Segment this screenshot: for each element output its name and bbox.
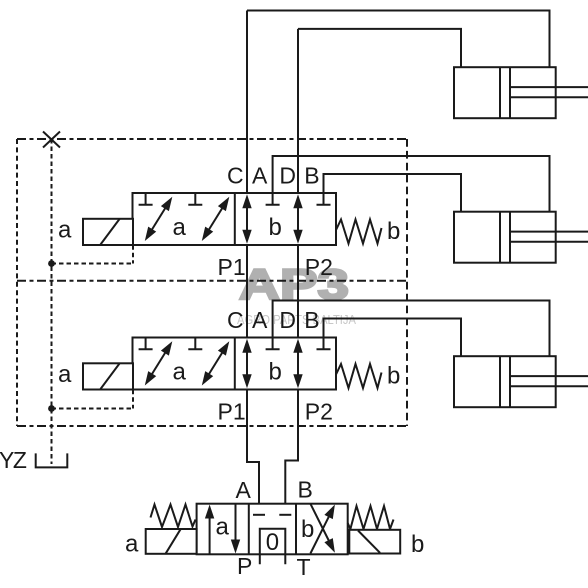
wire B: valve port B over to cylinder left port	[324, 174, 462, 212]
watermark AP3 logo	[237, 261, 356, 327]
svg-text:P: P	[237, 553, 252, 579]
svg-text:b: b	[387, 218, 400, 245]
wire P2/D: vertical line x=298 from top through valves V1,V2 with jog into valve V3 port B	[285, 29, 298, 515]
svg-text:B: B	[304, 163, 319, 189]
valve V3 left spring	[151, 505, 196, 528]
pilot branch to valve V2 solenoid	[52, 390, 134, 409]
diagonal flow arrow 2 in box a	[204, 201, 227, 238]
valve V3 center box 0 with P,T stubs	[260, 529, 286, 564]
svg-text:P2: P2	[305, 254, 333, 280]
cylinder piston	[500, 212, 510, 263]
dashed enclosure top line	[17, 138, 407, 140]
dashed enclosure middle line	[17, 280, 407, 282]
drain port U symbol	[36, 453, 68, 467]
valve unit 2: 6/2 valve V2 with wires and cylinder CYL3	[58, 301, 588, 425]
wire P1/C: vertical line x=247 from top through valves V1,V2 with jog into valve V3 port A	[247, 11, 259, 515]
svg-text:B: B	[298, 477, 313, 503]
junction dot 1	[48, 260, 55, 267]
diagonal flow arrow 1 in box a	[147, 201, 170, 238]
valve unit 1: 6/2 valve V1 with wires and cylinder CYL2	[58, 156, 588, 280]
pilot branch to valve V1 solenoid	[52, 245, 134, 263]
svg-text:a: a	[173, 214, 187, 241]
svg-text:P1: P1	[218, 254, 246, 280]
svg-text:A: A	[252, 163, 268, 189]
blocked port A in box b	[266, 193, 280, 205]
svg-text:a: a	[216, 514, 230, 541]
svg-text:b: b	[411, 531, 424, 558]
valve position divider	[234, 193, 236, 245]
dashed enclosure left line	[16, 139, 18, 426]
junction dot 2	[48, 405, 55, 412]
svg-text:a: a	[58, 217, 72, 244]
valve V3 box a: up arrow	[209, 516, 211, 554]
cylinder CYL1	[454, 67, 588, 118]
cylinder rod	[510, 232, 588, 242]
valve V3 blocked port B	[279, 514, 291, 516]
dashed enclosure bottom line	[17, 425, 407, 427]
svg-text:D: D	[279, 163, 296, 189]
svg-text:C: C	[227, 163, 244, 189]
vertical flow arrow D-P2 in box b	[297, 206, 299, 240]
svg-text:b: b	[301, 516, 314, 543]
valve V3: 4/3 directional valve main box	[197, 504, 348, 555]
svg-text:A: A	[236, 477, 252, 503]
pilot line vertical (dashed)	[51, 139, 53, 464]
wire A: valve port A over to cylinder right port	[273, 156, 550, 212]
valve V3 blocked port A	[253, 514, 265, 516]
plugged pilot port X symbol	[43, 132, 60, 148]
svg-text:b: b	[269, 214, 282, 241]
blocked port T symbol 2 in box a	[188, 193, 202, 205]
valve V3 box a: down arrow	[235, 504, 237, 541]
valve V3 right spring	[348, 506, 394, 529]
cylinder body	[454, 212, 556, 263]
return spring	[336, 220, 382, 244]
dashed enclosure right line	[406, 139, 408, 426]
valve main box	[133, 193, 337, 245]
wire D1: valve V1 port D up and over to cylinder CYL1 left port	[298, 29, 461, 67]
valve V3 right solenoid	[349, 530, 400, 554]
wire C1: valve V1 port C up and over to cylinder CYL1 right port	[247, 11, 550, 68]
blocked port B in box b	[317, 193, 331, 205]
svg-text:T: T	[297, 554, 311, 580]
valve V3 left solenoid	[146, 529, 197, 554]
solenoid actuator box	[83, 219, 133, 245]
svg-text:YZ: YZ	[0, 447, 27, 473]
svg-text:0: 0	[266, 529, 279, 556]
valve V3 box b: crossed arrows	[310, 504, 330, 554]
vertical flow arrow C-P1 in box b	[246, 206, 248, 240]
svg-text:a: a	[125, 530, 139, 557]
blocked port T symbol 1 in box a	[139, 193, 153, 205]
